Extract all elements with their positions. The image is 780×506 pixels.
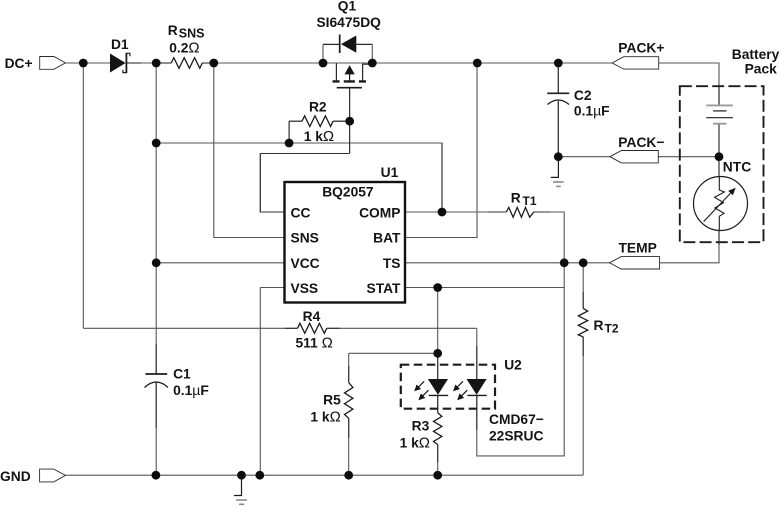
svg-text:1 kΩ: 1 kΩ bbox=[400, 435, 430, 452]
svg-text:VSS: VSS bbox=[291, 281, 319, 296]
svg-text:C1: C1 bbox=[173, 367, 191, 382]
svg-text:22SRUC: 22SRUC bbox=[489, 429, 543, 444]
svg-text:BAT: BAT bbox=[373, 231, 401, 246]
svg-text:0.1µF: 0.1µF bbox=[574, 102, 610, 118]
svg-text:R: R bbox=[511, 191, 521, 206]
svg-text:CC: CC bbox=[291, 205, 311, 220]
svg-text:R: R bbox=[168, 23, 178, 38]
svg-text:R2: R2 bbox=[309, 99, 327, 114]
svg-text:GND: GND bbox=[0, 469, 31, 484]
svg-text:0.1µF: 0.1µF bbox=[173, 382, 209, 398]
svg-text:C2: C2 bbox=[574, 88, 592, 103]
svg-text:Q1: Q1 bbox=[338, 0, 357, 14]
svg-text:TEMP: TEMP bbox=[619, 241, 657, 256]
svg-text:T2: T2 bbox=[605, 321, 619, 335]
svg-text:1 kΩ: 1 kΩ bbox=[310, 409, 340, 426]
svg-text:PACK+: PACK+ bbox=[618, 41, 664, 56]
svg-text:U2: U2 bbox=[504, 358, 522, 373]
svg-text:DC+: DC+ bbox=[5, 56, 33, 71]
svg-text:R5: R5 bbox=[323, 392, 341, 407]
svg-text:SNS: SNS bbox=[179, 27, 205, 41]
svg-text:T1: T1 bbox=[523, 194, 537, 208]
svg-text:Pack: Pack bbox=[745, 62, 778, 77]
svg-text:CMD67−: CMD67− bbox=[489, 412, 544, 427]
svg-text:SNS: SNS bbox=[291, 231, 319, 246]
svg-text:SI6475DQ: SI6475DQ bbox=[316, 15, 381, 30]
svg-text:VCC: VCC bbox=[291, 256, 320, 271]
svg-text:Battery: Battery bbox=[732, 47, 780, 62]
svg-text:1 kΩ: 1 kΩ bbox=[304, 128, 334, 145]
svg-text:U1: U1 bbox=[381, 165, 399, 180]
svg-text:STAT: STAT bbox=[367, 281, 402, 296]
svg-text:D1: D1 bbox=[111, 37, 129, 52]
svg-text:BQ2057: BQ2057 bbox=[322, 185, 374, 200]
svg-text:R3: R3 bbox=[412, 419, 430, 434]
svg-text:R4: R4 bbox=[303, 309, 321, 324]
svg-text:COMP: COMP bbox=[359, 205, 400, 220]
svg-text:511 Ω: 511 Ω bbox=[296, 334, 333, 351]
svg-text:TS: TS bbox=[383, 256, 401, 271]
svg-text:NTC: NTC bbox=[723, 159, 751, 174]
svg-text:PACK−: PACK− bbox=[618, 135, 664, 150]
svg-text:R: R bbox=[594, 318, 604, 333]
svg-text:0.2Ω: 0.2Ω bbox=[169, 39, 199, 56]
